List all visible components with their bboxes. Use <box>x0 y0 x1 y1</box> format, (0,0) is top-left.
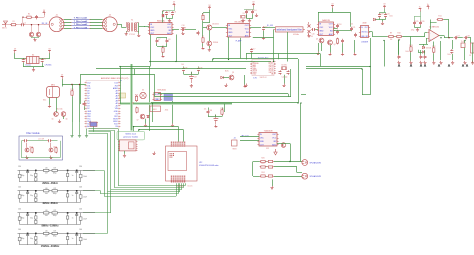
label J-pins <box>177 186 184 188</box>
wire <box>215 115 217 117</box>
ground <box>466 64 468 66</box>
wire <box>172 29 179 31</box>
transistor Q5 <box>54 112 59 117</box>
wire <box>178 127 180 142</box>
junction <box>212 58 213 59</box>
svg-text:murata: murata <box>25 64 31 67</box>
capacitor C36 <box>197 67 202 71</box>
ground <box>58 120 61 123</box>
wire <box>306 68 362 70</box>
svg-text:2MHz~4MHz: 2MHz~4MHz <box>42 181 58 185</box>
svg-text:30p: 30p <box>30 195 33 197</box>
wire <box>185 183 187 185</box>
svg-text:SA612B: SA612B <box>322 19 330 22</box>
wire <box>31 36 33 39</box>
capacitor C25 <box>413 21 418 25</box>
wire <box>354 40 356 53</box>
svg-text:10k: 10k <box>390 39 393 41</box>
wire <box>139 129 184 131</box>
resistor R25 <box>267 175 274 177</box>
wire <box>156 38 158 39</box>
wire <box>149 67 151 132</box>
junction <box>31 24 32 25</box>
svg-text:4MHz~8MHz: 4MHz~8MHz <box>42 201 58 205</box>
wire <box>185 29 196 31</box>
wire <box>79 122 81 134</box>
svg-text:1n: 1n <box>72 195 74 197</box>
ground <box>248 19 251 23</box>
svg-text:680p: 680p <box>53 215 57 217</box>
ground <box>432 61 435 65</box>
wire <box>198 66 200 69</box>
wire <box>208 114 210 116</box>
wire <box>321 43 323 51</box>
capacitor C31 <box>420 55 423 59</box>
svg-text:MC1350: MC1350 <box>235 22 244 24</box>
wire <box>290 69 292 97</box>
wire <box>202 28 204 37</box>
wire <box>430 22 437 24</box>
junction <box>79 84 80 85</box>
wire <box>150 61 271 63</box>
ground <box>255 14 258 17</box>
wire <box>111 189 182 191</box>
junction <box>152 103 153 104</box>
wire <box>443 19 449 21</box>
wire <box>380 12 386 14</box>
svg-text:2SC3355: 2SC3355 <box>212 24 219 26</box>
ground <box>78 134 81 137</box>
svg-text:LT455EW: LT455EW <box>361 42 368 44</box>
ground <box>208 48 211 51</box>
svg-text:C18: C18 <box>338 24 341 26</box>
diode D4 <box>373 18 375 20</box>
wire <box>176 35 178 62</box>
svg-text:VCC: VCC <box>329 27 334 29</box>
wire <box>64 22 102 24</box>
wire <box>458 37 463 39</box>
polarized capacitor C37 <box>189 72 197 83</box>
wire <box>38 36 40 39</box>
svg-text:BFO: BFO <box>153 109 157 111</box>
wire <box>468 37 471 39</box>
resistor R8 <box>336 38 338 45</box>
wire <box>253 37 274 39</box>
transistor Q10 <box>49 148 53 152</box>
svg-text:100u: 100u <box>447 54 451 56</box>
analog switch U8 <box>152 93 162 102</box>
svg-text:C26: C26 <box>421 21 424 23</box>
wire <box>330 45 332 53</box>
svg-text:680p: 680p <box>21 217 25 219</box>
wire <box>252 162 254 177</box>
svg-text:C32: C32 <box>43 58 46 60</box>
wire <box>104 170 106 196</box>
op-amp U5 <box>427 27 439 42</box>
wire <box>117 24 121 26</box>
wire <box>414 25 416 27</box>
wire <box>198 72 200 74</box>
ground <box>161 55 164 58</box>
resistor R9 <box>388 33 395 38</box>
wire <box>332 8 334 12</box>
wire <box>265 166 268 168</box>
wire <box>89 130 115 132</box>
wire <box>166 16 168 19</box>
wire <box>433 53 435 60</box>
svg-text:IN2: IN2 <box>246 32 249 34</box>
wire <box>251 53 253 59</box>
wire <box>240 136 259 138</box>
junction <box>22 17 23 18</box>
junction <box>273 61 274 62</box>
svg-text:C46: C46 <box>79 187 82 189</box>
ground <box>49 156 52 159</box>
ground <box>420 64 422 66</box>
wire <box>172 16 174 19</box>
wire <box>398 40 400 55</box>
svg-text:15MHz~30MHz: 15MHz~30MHz <box>41 244 60 248</box>
label varactor <box>307 36 313 38</box>
audio amplifier U13 <box>257 130 278 147</box>
svg-text:C23: C23 <box>380 13 383 15</box>
resistor R5 <box>162 46 164 53</box>
transistor Q2 <box>207 41 212 46</box>
svg-text:2N3904: 2N3904 <box>213 42 218 44</box>
svg-text:100k: 100k <box>405 51 409 53</box>
ground <box>307 34 310 38</box>
svg-text:X2: X2 <box>32 55 34 57</box>
wire <box>426 38 427 40</box>
power flag 5V <box>61 74 64 79</box>
capacitor C29 <box>450 49 453 53</box>
svg-text:C38: C38 <box>209 110 212 112</box>
resistor R1 <box>10 21 17 26</box>
ground <box>32 68 35 71</box>
svg-text:OSC: OSC <box>228 29 233 31</box>
svg-text:470p: 470p <box>411 30 415 32</box>
svg-text:C31: C31 <box>24 58 27 60</box>
junction <box>175 61 176 62</box>
radio IC U10 <box>250 56 275 79</box>
wire <box>212 27 227 29</box>
wire <box>209 13 211 23</box>
wire <box>110 132 112 213</box>
bandpass filter FL1 <box>274 27 306 36</box>
wire <box>448 20 450 38</box>
wire <box>362 69 364 95</box>
svg-text:L16: L16 <box>45 210 48 212</box>
junction <box>149 61 150 62</box>
label R13v <box>405 51 409 53</box>
ground <box>416 28 419 32</box>
svg-text:ARDUINO NANO EVERY (U7): ARDUINO NANO EVERY (U7) <box>101 77 129 80</box>
power flag 5V <box>43 10 46 15</box>
wire <box>145 119 147 124</box>
wire <box>83 190 101 192</box>
wire <box>162 17 164 22</box>
crystal X4 <box>281 64 287 70</box>
svg-text:R22: R22 <box>261 163 264 165</box>
wire <box>213 58 298 60</box>
power flag 5V <box>173 2 176 7</box>
wire <box>334 30 346 32</box>
wire <box>72 96 74 122</box>
ground <box>137 34 140 37</box>
wire <box>162 45 164 48</box>
wire <box>51 141 58 148</box>
wire <box>452 40 454 49</box>
wire <box>398 40 400 55</box>
wire <box>72 85 74 90</box>
svg-text:C40: C40 <box>18 187 21 189</box>
transistor Q9 <box>25 148 29 152</box>
junction <box>300 102 301 103</box>
capacitor C17 <box>311 28 315 31</box>
wire <box>33 67 35 68</box>
wire <box>464 48 466 60</box>
svg-text:C14: C14 <box>253 10 256 12</box>
resistor R22 <box>260 163 267 168</box>
wire <box>246 14 248 18</box>
ground <box>471 61 474 65</box>
label AGC <box>225 70 229 73</box>
junction <box>71 84 72 85</box>
junction <box>162 10 163 11</box>
svg-text:C25: C25 <box>415 21 418 23</box>
net label RF_IN <box>42 23 48 25</box>
svg-text:R13: R13 <box>409 45 412 47</box>
polarized capacitor C10 <box>181 25 185 27</box>
svg-text:C8: C8 <box>168 39 170 41</box>
wire <box>93 127 95 132</box>
svg-text:D0..D5: D0..D5 <box>188 186 193 188</box>
capacitor C40 <box>279 70 282 74</box>
wire <box>134 69 136 75</box>
wire <box>372 32 374 37</box>
capacitor C16 <box>262 26 267 30</box>
capacitor C18 <box>336 24 341 28</box>
wire <box>183 130 185 142</box>
label U8 <box>157 90 166 92</box>
svg-text:A2: A2 <box>116 102 118 105</box>
wire <box>342 43 344 52</box>
svg-text:9014: 9014 <box>43 100 47 102</box>
wire <box>376 19 386 21</box>
wire <box>415 16 421 18</box>
svg-text:Q5: Q5 <box>51 119 53 121</box>
wire <box>423 44 425 46</box>
svg-text:C60: C60 <box>18 229 21 231</box>
svg-text:A0: A0 <box>87 125 89 128</box>
ground <box>463 61 466 65</box>
svg-text:L16: L16 <box>45 167 48 169</box>
capacitor C6 <box>171 11 176 15</box>
wire <box>84 100 86 103</box>
svg-text:Q8: Q8 <box>232 72 234 74</box>
junction <box>369 66 370 67</box>
label R10 val <box>398 39 401 41</box>
svg-text:A3: A3 <box>116 100 118 103</box>
wire <box>209 46 211 48</box>
ground <box>282 84 285 87</box>
capacitor C28 <box>464 36 470 40</box>
wire <box>157 46 167 48</box>
junction <box>383 40 384 41</box>
wire <box>133 127 135 132</box>
ground <box>423 61 426 65</box>
ground <box>262 37 265 40</box>
bandpass filter bank 1 <box>18 166 96 185</box>
capacitor C33 <box>83 102 88 106</box>
junction <box>138 129 139 130</box>
wire <box>163 10 174 12</box>
wire <box>203 12 210 14</box>
wire <box>27 141 34 148</box>
wire <box>410 52 412 60</box>
wire <box>247 18 253 20</box>
transistor Q4 <box>328 40 333 45</box>
FPGA module U12 <box>166 142 198 183</box>
wire <box>274 161 302 163</box>
svg-text:30p: 30p <box>30 217 33 219</box>
capacitor C41 <box>287 70 290 74</box>
wire <box>100 191 102 194</box>
IF amplifier U2 <box>226 22 251 38</box>
speaker jack SP1 <box>302 160 321 166</box>
svg-text:L16: L16 <box>45 188 48 190</box>
mixer U1 <box>148 20 174 36</box>
wire <box>179 183 181 192</box>
wire <box>379 12 381 15</box>
capacitor C31 <box>22 58 27 62</box>
wire <box>209 30 211 41</box>
svg-text:A4: A4 <box>116 97 118 100</box>
svg-text:AGC: AGC <box>272 144 277 147</box>
MCU module U7 <box>85 77 129 129</box>
wire <box>120 67 122 104</box>
capacitor C9 <box>181 27 187 31</box>
wire <box>203 27 207 29</box>
svg-text:GND: GND <box>260 141 265 143</box>
label R9 val <box>390 39 393 41</box>
polarized capacitor C39 <box>214 115 219 125</box>
svg-text:R15: R15 <box>70 89 73 91</box>
highlighted net (audio bus) <box>120 102 232 105</box>
net label T_Filter_band2 <box>71 20 91 23</box>
svg-text:RF_IN: RF_IN <box>42 23 48 25</box>
capacitor C21 <box>350 27 355 31</box>
wire <box>62 79 64 86</box>
ground <box>244 84 247 87</box>
label U2 blue <box>236 40 242 43</box>
wire <box>183 72 185 74</box>
wire <box>115 187 184 189</box>
highlighted net (vfo bus) <box>130 64 133 131</box>
capacitor C35 <box>182 67 187 71</box>
wire <box>155 96 291 98</box>
label Q8 lab <box>232 72 234 74</box>
label bus <box>188 186 193 188</box>
wire <box>181 183 183 190</box>
buffer U9 <box>164 94 173 101</box>
svg-text:X3: X3 <box>142 90 144 92</box>
wire <box>253 176 260 178</box>
wire <box>124 151 126 154</box>
label C38 val <box>204 109 207 111</box>
ground <box>152 152 155 155</box>
wire <box>370 38 372 95</box>
wire <box>86 129 88 134</box>
wire <box>162 53 164 54</box>
wire <box>64 25 102 27</box>
svg-text:30p: 30p <box>30 238 33 240</box>
svg-text:100n: 100n <box>389 16 393 18</box>
svg-text:10uH: 10uH <box>83 239 87 241</box>
resistor R12 <box>432 46 435 53</box>
module J5 <box>89 122 98 127</box>
ground <box>181 32 184 35</box>
wire <box>154 75 156 97</box>
crystal X1 <box>241 13 247 18</box>
capacitor C13 <box>245 10 250 14</box>
capacitor C2 <box>35 15 38 19</box>
svg-text:GND: GND <box>319 31 324 33</box>
wire <box>169 18 171 20</box>
wire <box>274 166 297 168</box>
net label AF <box>241 135 249 138</box>
wire <box>300 103 302 162</box>
svg-text:AF_OUT: AF_OUT <box>241 135 249 138</box>
wire <box>138 130 140 132</box>
wire <box>287 32 289 62</box>
junction <box>289 161 290 162</box>
resistor R19 <box>220 108 223 115</box>
resistor R10 <box>396 33 403 38</box>
label Q2 type <box>213 42 218 44</box>
svg-text:SP-EAR-3W5: SP-EAR-3W5 <box>310 161 322 164</box>
ground <box>144 124 147 127</box>
capacitor C19 <box>336 30 339 34</box>
svg-text:C10: C10 <box>181 25 184 27</box>
bandpass filter bank 3 <box>18 209 96 228</box>
power flag 5V <box>48 48 51 53</box>
svg-text:680p: 680p <box>21 175 25 177</box>
svg-text:OSC: OSC <box>150 27 155 29</box>
wire <box>264 27 276 29</box>
svg-text:C37: C37 <box>194 77 197 79</box>
wire <box>402 36 425 38</box>
svg-text:104: 104 <box>350 24 353 26</box>
capacitor C32 <box>41 58 46 62</box>
svg-text:IF_455: IF_455 <box>267 25 273 27</box>
wire <box>172 101 174 124</box>
ground <box>448 64 450 66</box>
svg-text:OUT: OUT <box>365 27 368 29</box>
wire <box>284 75 286 84</box>
power flag 5V <box>208 5 211 10</box>
svg-text:GND: GND <box>228 32 233 34</box>
svg-text:OUT: OUT <box>157 94 160 96</box>
power flag down <box>274 149 277 155</box>
wire <box>385 18 387 20</box>
svg-text:GND: GND <box>150 30 155 32</box>
wire <box>121 24 123 27</box>
wire <box>249 18 251 21</box>
svg-text:680p: 680p <box>21 195 25 197</box>
svg-text:IN: IN <box>361 27 363 29</box>
label U13 pin <box>266 148 269 150</box>
